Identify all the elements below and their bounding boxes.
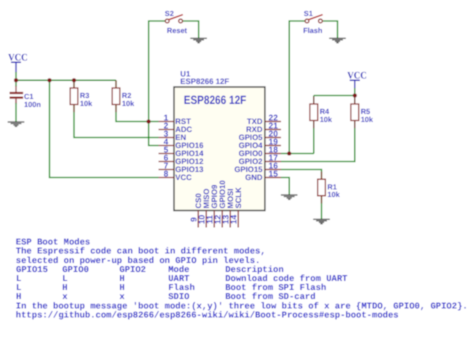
svg-text:10k: 10k (361, 115, 374, 124)
svg-text:14: 14 (228, 215, 238, 225)
svg-text:10k: 10k (327, 190, 340, 199)
svg-text:ESP8266 12F: ESP8266 12F (184, 93, 247, 107)
svg-text:SCLK: SCLK (234, 187, 243, 209)
svg-text:VCC: VCC (347, 71, 367, 82)
svg-text:VCC: VCC (175, 173, 192, 182)
svg-text:S1: S1 (304, 9, 313, 18)
svg-text:10k: 10k (320, 115, 333, 124)
svg-text:10k: 10k (80, 99, 93, 108)
svg-text:ESP8266 12F: ESP8266 12F (180, 77, 229, 86)
svg-text:VCC: VCC (8, 53, 28, 64)
svg-text:S2: S2 (165, 9, 174, 18)
svg-text:15: 15 (269, 169, 279, 179)
svg-text:10k: 10k (122, 99, 135, 108)
svg-text:100n: 100n (24, 100, 41, 109)
svg-text:Flash: Flash (303, 26, 323, 35)
svg-text:https://github.com/esp8266/esp: https://github.com/esp8266/esp8266-wiki/… (16, 310, 399, 320)
svg-text:8: 8 (164, 169, 169, 179)
svg-text:GND: GND (245, 173, 263, 182)
svg-text:Reset: Reset (167, 26, 188, 35)
